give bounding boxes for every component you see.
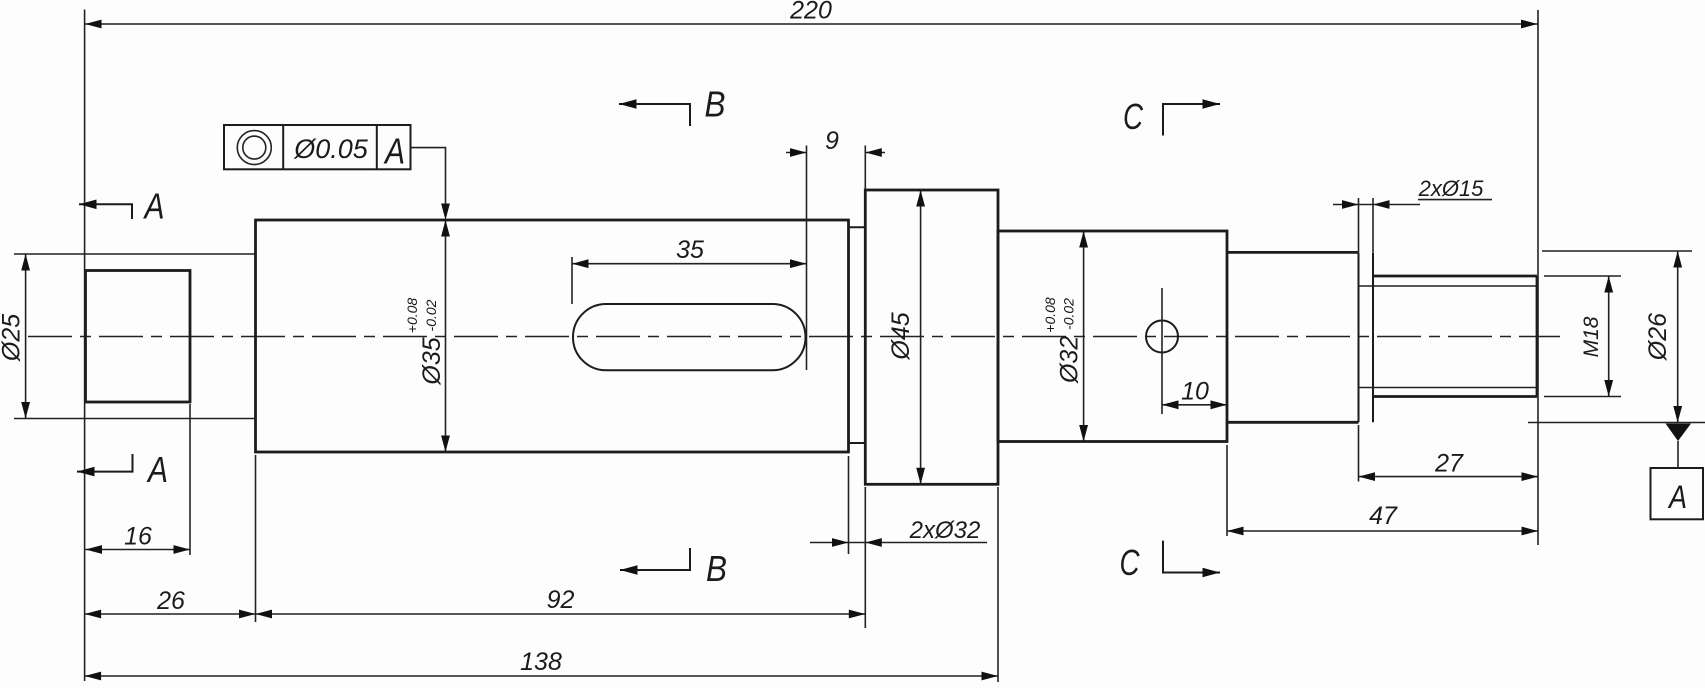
- svg-text:10: 10: [1181, 377, 1209, 405]
- svg-text:A: A: [383, 131, 405, 172]
- svg-text:26: 26: [156, 587, 185, 615]
- svg-text:35: 35: [676, 236, 704, 264]
- svg-text:C: C: [1123, 96, 1144, 137]
- svg-text:C: C: [1120, 542, 1141, 583]
- svg-text:27: 27: [1434, 449, 1464, 477]
- svg-text:16: 16: [124, 523, 152, 551]
- svg-text:220: 220: [789, 0, 832, 25]
- svg-text:2xØ15: 2xØ15: [1418, 176, 1485, 201]
- svg-text:A: A: [1667, 479, 1687, 515]
- svg-text:-0.02: -0.02: [1061, 298, 1077, 330]
- svg-text:2xØ32: 2xØ32: [909, 517, 981, 544]
- svg-text:Ø45: Ø45: [887, 312, 915, 360]
- svg-text:B: B: [706, 548, 727, 589]
- svg-text:92: 92: [547, 586, 575, 614]
- svg-text:Ø0.05: Ø0.05: [293, 134, 369, 164]
- svg-text:A: A: [146, 449, 168, 490]
- svg-text:+0.08: +0.08: [404, 298, 420, 334]
- svg-text:Ø25: Ø25: [0, 314, 26, 362]
- svg-text:Ø32: Ø32: [1056, 336, 1084, 384]
- svg-text:9: 9: [825, 127, 839, 155]
- svg-text:47: 47: [1369, 502, 1398, 530]
- svg-text:+0.08: +0.08: [1042, 297, 1058, 333]
- svg-text:138: 138: [520, 648, 562, 676]
- svg-text:-0.02: -0.02: [423, 299, 439, 331]
- svg-text:A: A: [143, 186, 165, 227]
- svg-text:Ø26: Ø26: [1644, 313, 1672, 361]
- svg-text:B: B: [705, 84, 726, 125]
- svg-text:M18: M18: [1580, 316, 1603, 357]
- svg-text:Ø35: Ø35: [418, 337, 446, 385]
